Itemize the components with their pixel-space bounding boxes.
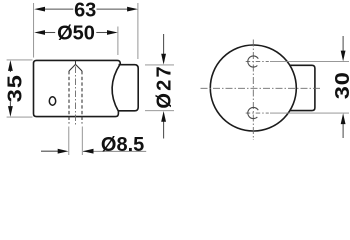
svg-text:Ø27: Ø27 bbox=[153, 64, 175, 108]
svg-text:Ø50: Ø50 bbox=[57, 22, 95, 44]
svg-text:63: 63 bbox=[74, 0, 96, 22]
svg-text:35: 35 bbox=[3, 74, 26, 102]
svg-text:Ø8.5: Ø8.5 bbox=[101, 134, 144, 156]
svg-text:30: 30 bbox=[331, 71, 350, 99]
